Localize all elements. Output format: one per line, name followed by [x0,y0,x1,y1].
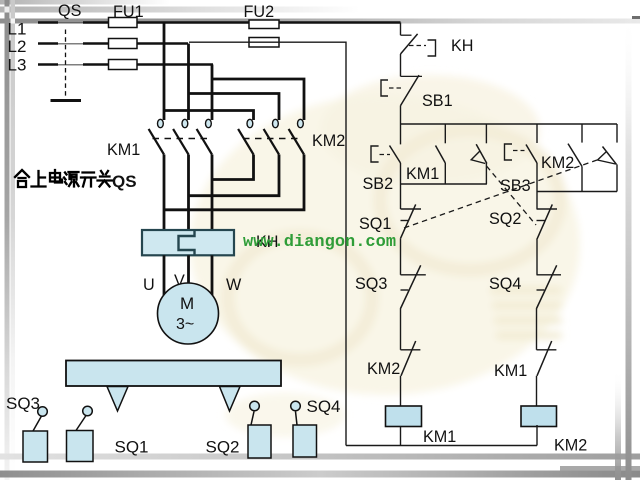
wire KH to motor W [211,255,214,295]
motor feed wire W [211,155,214,231]
motor M [158,283,219,344]
frame top band 1 [0,0,170,5]
frame bottom band 1 [0,454,640,460]
fuse FU2 pole 2 [249,38,279,48]
chinese caption 合上电源开关QS [15,170,112,187]
frame bottom band 2 [0,471,640,478]
svg-text:QS: QS [112,172,137,191]
svg-text:SQ2: SQ2 [206,438,240,457]
svg-text:3~: 3~ [176,316,194,333]
svg-text:SQ4: SQ4 [489,275,521,293]
fuse FU2 pole 1 [249,20,279,29]
aux contact KM2 (NO) [568,144,582,192]
crossover wire L3 to KM2 pole3 [212,79,304,120]
svg-text:FU2: FU2 [244,3,275,21]
wire L1 [38,21,401,24]
wire L2 [38,42,188,45]
rail 2 right [537,191,617,193]
fuse FU1 pole 3 [109,60,138,70]
disconnect switch QS linkage (dashed) [65,30,67,97]
frame top band 2 [0,7,360,13]
limit switch SQ4 (NC) [536,265,561,350]
fuse FU1 pole 1 [109,18,138,28]
svg-text:W: W [226,276,242,294]
svg-text:U: U [143,276,155,294]
frame left bar 2 [11,0,16,480]
limit switch SQ1 unit [67,406,94,461]
coil KM1 [386,406,422,427]
svg-text:KM1: KM1 [107,141,140,159]
svg-text:L3: L3 [8,56,27,75]
svg-text:M: M [180,294,194,313]
svg-text:QS: QS [58,2,82,20]
control main drop from L1 [400,23,402,36]
output crossover KM2 pole2 to V [189,155,280,196]
wire right branch down [536,192,538,210]
disconnect switch QS handle bar [51,99,82,102]
bottom rail [346,445,537,447]
frame bottom right weave bar [560,466,640,471]
interlock contact KM2 (NC) [401,341,421,406]
svg-text:KM1: KM1 [406,165,439,183]
limit switch SQ1 (NC) [401,184,422,275]
limit switch SQ3 (NC) [400,265,426,350]
main drop wire phase B [187,44,190,121]
frame weave gaps top left [11,19,16,24]
thermal contact KH (NC) [401,34,436,77]
svg-text:SQ4: SQ4 [307,397,341,416]
output crossover KM2 pole3 to U [164,155,304,210]
wire KH to motor V [187,255,190,284]
crossover wire L2 to KM2 pole2 [189,94,280,121]
fuse FU1 pole 2 [109,39,138,49]
cam 1 [107,387,128,412]
thermal relay KH heater box [142,230,234,255]
svg-text:SQ3: SQ3 [355,275,387,293]
frame top band 3 [0,19,640,24]
mech linkage dash SQ2 [487,166,537,225]
frame right bar 2 [626,14,632,480]
frame right bar 1 [615,370,621,480]
watermark blobs (pale yellow) [190,75,580,437]
svg-text:KM2: KM2 [367,360,400,378]
svg-text:SQ1: SQ1 [359,215,391,233]
wire coil KM1 to bottom rail [400,427,402,446]
svg-text:SQ2: SQ2 [489,210,521,228]
coil KM2 [521,406,557,427]
main drop wire phase A [163,23,166,121]
frame top right dash [632,16,640,19]
stop button SB1 (NC) [381,75,422,124]
limit switch SQ2 unit [248,401,271,458]
frame left bar [5,0,10,480]
svg-text:KM1: KM1 [423,428,456,446]
svg-text:KH: KH [451,37,474,55]
svg-text:SQ1: SQ1 [115,438,149,457]
svg-text:L2: L2 [8,37,27,56]
wire coil KM2 to bottom rail [536,425,538,446]
start button SB3 (NO) [505,144,538,192]
limit switch SQ2 (NC) [537,204,558,274]
crossover wire L1 to KM2 pole1 [164,111,254,121]
svg-text:KM2: KM2 [554,437,587,455]
limit contact SQ2-NO (arrow) [471,144,487,184]
svg-text:SQ3: SQ3 [6,394,40,413]
control feed wire from L2 to FU2 and left rail [189,42,346,445]
interlock contact KM1 (NC) [537,341,557,406]
aux contact KM1 (NO) [436,146,446,185]
svg-text:SB1: SB1 [422,92,453,110]
contactor KM2 main contacts [238,119,304,154]
svg-text:www.diangon.com: www.diangon.com [243,233,396,252]
cam 2 [220,387,241,412]
main drop wire phase C [211,65,214,121]
motor feed wire U [163,155,166,231]
svg-text:KM1: KM1 [494,362,527,380]
svg-text:KM2: KM2 [312,132,345,150]
limit contact SQ1-NO (arrow) [598,147,618,192]
svg-text:SB2: SB2 [363,175,394,193]
svg-text:L1: L1 [8,20,27,39]
rail1 stubs [401,124,618,144]
limit switch SQ3 unit [23,407,48,462]
start button SB2 (NO) [371,146,401,185]
motor feed wire V [187,155,190,231]
wire KH to motor U [163,255,166,295]
rail 1 [401,123,618,125]
output crossover KM2 pole1 to W [212,155,254,180]
limit switch SQ4 unit [291,401,317,457]
mechanism dog bar [66,361,281,387]
rail 2 left [401,183,487,185]
mech linkage dash SQ1 [404,160,597,228]
wire L3 [38,63,213,66]
contactor KM1 main contacts [149,119,212,154]
